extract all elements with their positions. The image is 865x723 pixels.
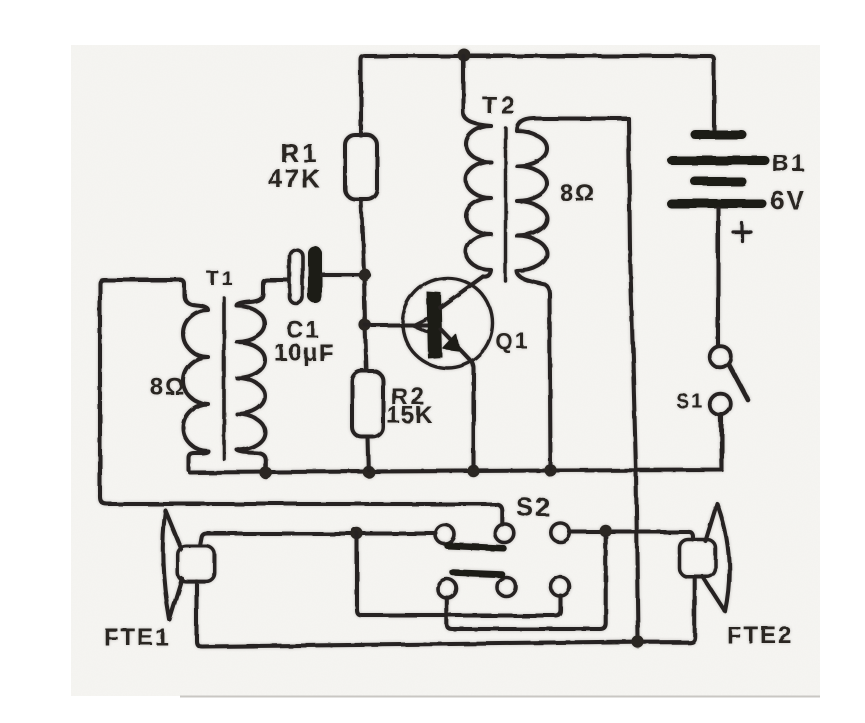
paper bottom edge — [180, 696, 820, 698]
paper background — [71, 45, 820, 696]
